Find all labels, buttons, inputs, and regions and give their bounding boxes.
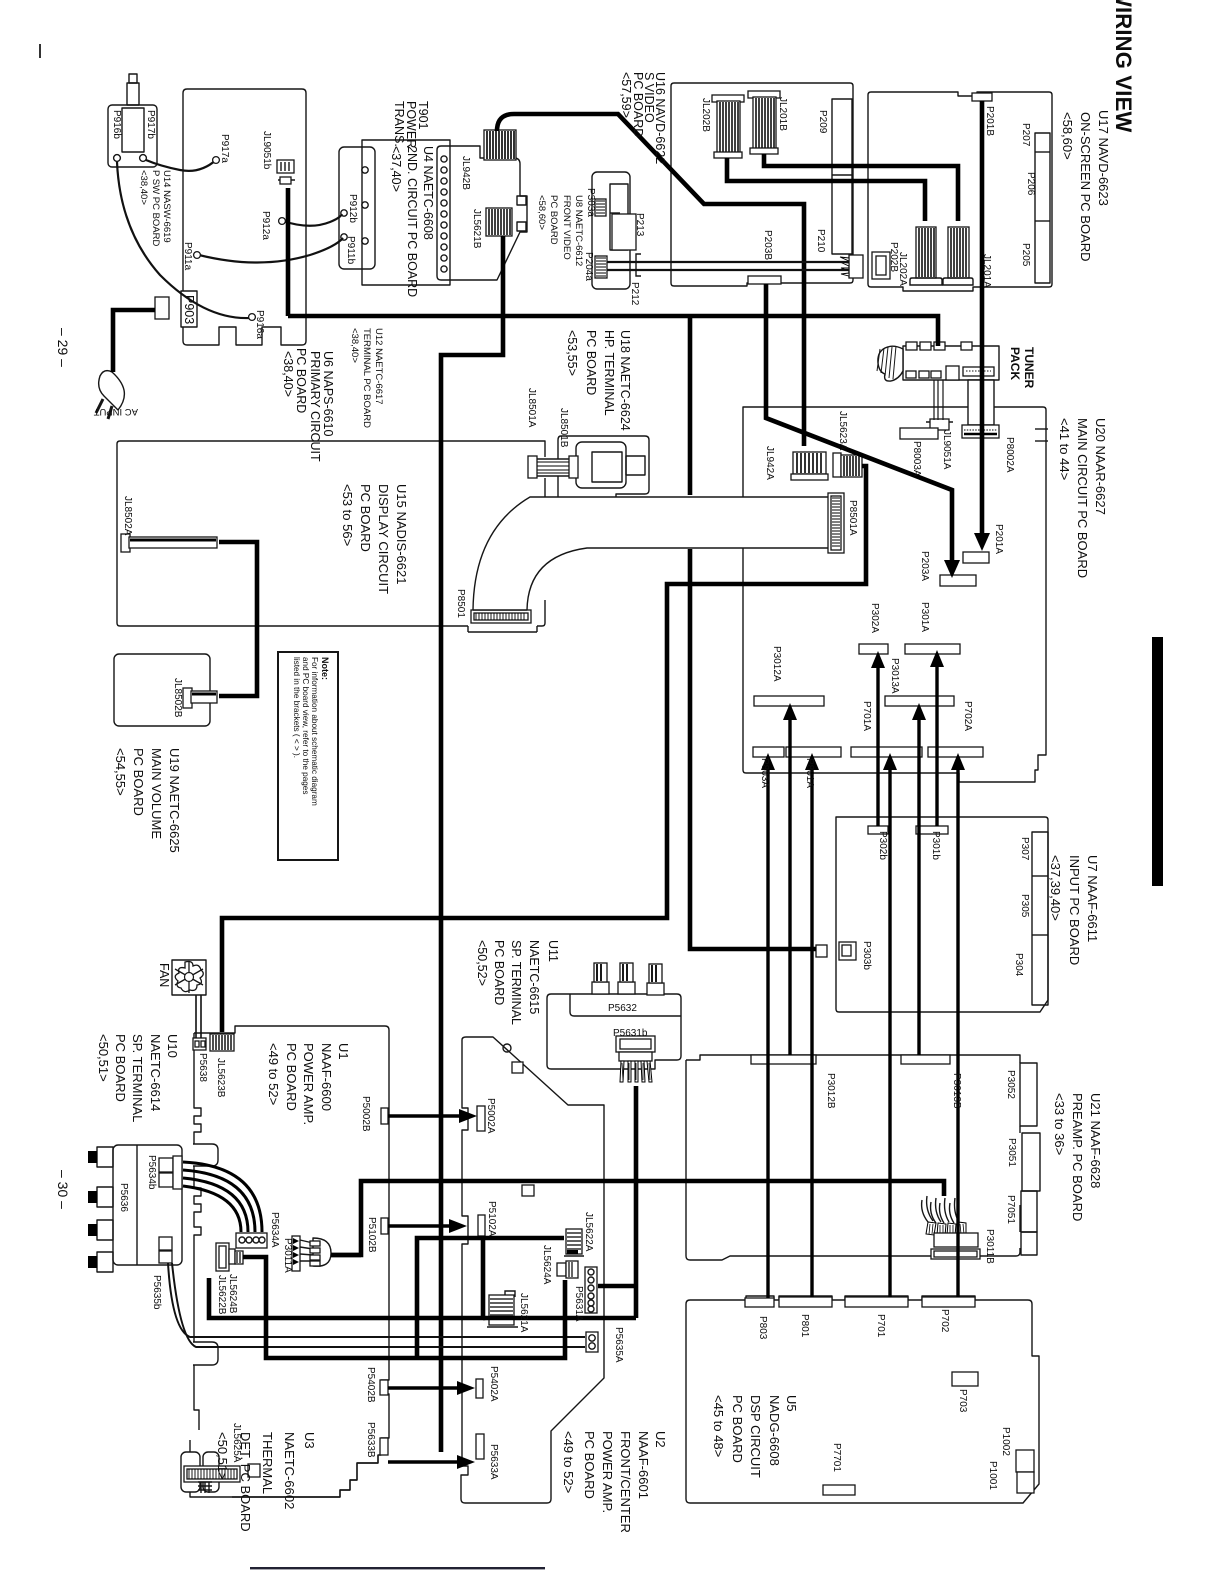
connector JL202B striped on U16	[712, 95, 744, 158]
svg-text:PC BOARD: PC BOARD	[294, 348, 308, 413]
wire pair P204a to 5-pin connector	[607, 262, 849, 270]
svg-text:FRONT VIDEO: FRONT VIDEO	[561, 195, 572, 260]
connector JL5621B striped on U4	[486, 208, 512, 236]
wire P203B down to diagonal to P203A arrow	[766, 284, 952, 566]
svg-text:JL5623A: JL5623A	[837, 411, 848, 451]
svg-text:P305: P305	[1019, 894, 1030, 918]
board U16 NAVD-6622 s-video	[671, 83, 853, 286]
connector P703 on U5	[952, 1372, 978, 1386]
svg-text:P5638: P5638	[197, 1053, 208, 1082]
svg-text:P7701: P7701	[831, 1443, 842, 1472]
svg-text:PC BOARD: PC BOARD	[730, 1395, 745, 1463]
connector P8501 striped on U15	[471, 610, 531, 623]
svg-text:<58,60>: <58,60>	[1060, 112, 1075, 160]
svg-text:P917a: P917a	[219, 134, 230, 163]
connector P701A on U20	[851, 747, 922, 757]
svg-text:MAIN CIRCUIT PC BOARD: MAIN CIRCUIT PC BOARD	[1075, 418, 1090, 578]
tuner pack	[877, 342, 999, 381]
connector P303b on U7	[816, 942, 856, 960]
RCA jack row on U10	[88, 1147, 113, 1272]
connector P303a hatched on U8	[595, 199, 606, 216]
svg-text:U1: U1	[336, 1043, 351, 1060]
svg-text:P5631b: P5631b	[613, 1028, 648, 1039]
label block U2	[561, 1431, 668, 1533]
svg-text:P5002A: P5002A	[485, 1098, 496, 1134]
svg-text:U14 NASW-6619: U14 NASW-6619	[161, 170, 172, 243]
connector P702A on U20	[928, 747, 983, 757]
svg-text:P912b: P912b	[347, 194, 358, 223]
connector JL8502A on U15	[121, 534, 217, 552]
rca plugs on U11 top	[592, 963, 664, 995]
wire P5635b to P5635A thin pair	[168, 1263, 585, 1347]
svg-text:P201B: P201B	[984, 106, 995, 136]
svg-text:PC BOARD: PC BOARD	[548, 195, 559, 245]
small square on U2 upper	[512, 1062, 523, 1073]
svg-text:U12 NAETC-6617: U12 NAETC-6617	[373, 328, 384, 405]
label block note	[292, 657, 330, 806]
svg-text:U2: U2	[653, 1431, 668, 1448]
svg-text:<58,60>: <58,60>	[536, 195, 547, 230]
svg-text:U11: U11	[546, 940, 560, 962]
label block U14	[138, 170, 172, 247]
connector P203B on U16	[748, 276, 781, 284]
label block U10	[96, 1034, 180, 1122]
svg-text:P303a: P303a	[585, 188, 596, 217]
svg-text:U6 NAPS-6610: U6 NAPS-6610	[321, 351, 335, 437]
svg-text:U21 NAAF-6628: U21 NAAF-6628	[1088, 1093, 1103, 1188]
connector P201B on U17 top edge	[972, 93, 992, 101]
svg-text:P304: P304	[1013, 953, 1024, 977]
board U12 NAETC-6617 terminal	[339, 147, 375, 269]
svg-text:<37,39,40>: <37,39,40>	[1048, 855, 1063, 921]
svg-text:JL201A: JL201A	[981, 254, 992, 288]
wire JL5623A to JL5623B long path	[222, 466, 866, 1032]
svg-text:JL5622B: JL5622B	[216, 1275, 227, 1315]
svg-text:NAETC-6602: NAETC-6602	[282, 1432, 297, 1509]
board U7 NAAF-6611 input	[836, 817, 1048, 1012]
svg-text:POWER AMP.: POWER AMP.	[600, 1431, 615, 1513]
svg-text:INPUT PC BOARD: INPUT PC BOARD	[1067, 855, 1082, 965]
svg-text:For information about schemati: For information about schematic diagram	[310, 657, 319, 806]
label block U12	[349, 328, 384, 428]
connector P1001 on U5 edge	[1017, 1472, 1034, 1493]
svg-text:P5002B: P5002B	[360, 1096, 371, 1132]
connector P204a hatched on U8	[595, 256, 607, 278]
svg-text:JL5624B: JL5624B	[227, 1274, 238, 1314]
power switch P916b/P917b block U14	[108, 74, 157, 167]
svg-text:U4 NAETC-6608: U4 NAETC-6608	[421, 146, 435, 240]
wire JL8502A to JL8502B	[219, 542, 257, 696]
svg-text:U10: U10	[165, 1034, 180, 1058]
wire P3011A stub	[331, 1253, 361, 1258]
wire P916b to P916a long curve	[117, 162, 250, 318]
svg-text:<33 to 36>: <33 to 36>	[1052, 1093, 1067, 1155]
svg-text:P302A: P302A	[869, 603, 880, 633]
svg-text:P307: P307	[1019, 837, 1030, 861]
svg-text:P1001: P1001	[987, 1461, 998, 1490]
connector P5102B on U1 right edge	[381, 1218, 388, 1234]
label block U20	[1057, 418, 1108, 578]
wire JL942B to JL942A : over top, diagonal, down	[497, 114, 804, 446]
svg-text:– 29 –: – 29 –	[55, 328, 71, 367]
board U10 NAETC-6614 sp terminal	[113, 1145, 182, 1265]
svg-text:PC BOARD: PC BOARD	[582, 1431, 597, 1499]
svg-text:P5635A: P5635A	[613, 1327, 624, 1363]
svg-text:P916b: P916b	[111, 110, 122, 139]
wire P5002B to P5002A arrow	[388, 1114, 463, 1117]
svg-text:P5634A: P5634A	[269, 1212, 280, 1248]
board U17 NAVD-6623 on-screen	[868, 92, 1052, 291]
connector JL5624B on U10	[229, 1249, 243, 1264]
svg-text:JL5622A: JL5622A	[583, 1212, 594, 1252]
label block U21	[1052, 1093, 1103, 1221]
connector P801A on U20	[786, 747, 841, 757]
board U15 NADIS-6621 display circuit	[117, 441, 545, 632]
connector P3013A on U20	[885, 696, 954, 706]
svg-text:JL8501A: JL8501A	[526, 388, 537, 428]
svg-text:P303b: P303b	[861, 941, 872, 970]
svg-text:DET. PC BOARD: DET. PC BOARD	[238, 1432, 253, 1532]
svg-text:JL5623B: JL5623B	[215, 1058, 226, 1098]
connector P7701 on U5	[823, 1485, 855, 1495]
svg-text:<41 to 44>: <41 to 44>	[1057, 418, 1072, 480]
connector P5635b on U10	[159, 1237, 172, 1263]
connector JL5621A striped on U2	[487, 1291, 518, 1327]
board U5 NADG-6608 dsp circuit	[686, 1296, 1039, 1503]
svg-text:FRONT/CENTER: FRONT/CENTER	[618, 1431, 633, 1533]
connector P5002B on U1 right edge	[381, 1108, 388, 1124]
svg-text:P5402B: P5402B	[365, 1367, 376, 1403]
svg-text:JL8502A: JL8502A	[122, 496, 133, 536]
wire P803A to P803	[766, 766, 769, 1298]
svg-text:P5102B: P5102B	[366, 1217, 377, 1253]
connector P803 on U5	[745, 1298, 774, 1307]
svg-text:<38,40>: <38,40>	[138, 170, 149, 205]
connector JL5625A striped on U3	[184, 1464, 260, 1493]
connector JL942B striped on U4	[484, 130, 516, 160]
svg-text:<54,55>: <54,55>	[113, 748, 128, 796]
svg-text:ON-SCREEN PC BOARD: ON-SCREEN PC BOARD	[1078, 112, 1093, 262]
wire JL9051b down to main bus	[286, 188, 291, 316]
wire JL5621B down, left, long down to U1 area	[441, 236, 503, 1452]
svg-text:TERMINAL PC BOARD: TERMINAL PC BOARD	[361, 328, 372, 428]
connector P5631A 6-hole column on U2	[585, 1267, 597, 1313]
label block TUNER PACK	[1008, 347, 1036, 389]
connector P5634b on U10	[159, 1156, 182, 1189]
connector P702 on U5	[922, 1297, 975, 1307]
svg-text:P912a: P912a	[260, 211, 271, 240]
svg-text:P8501A: P8501A	[847, 500, 858, 536]
svg-text:<50,52>: <50,52>	[475, 940, 489, 986]
label block U5	[711, 1395, 799, 1478]
svg-text:WIRING VIEW: WIRING VIEW	[1111, 0, 1136, 132]
svg-text:P3011A: P3011A	[282, 1238, 293, 1273]
svg-text:TUNER: TUNER	[1022, 347, 1036, 389]
svg-text:Note:: Note:	[320, 657, 330, 680]
svg-text:U7 NAAF-6611: U7 NAAF-6611	[1085, 855, 1100, 942]
wire P702A to P702 (passes P3011B)	[956, 766, 959, 1297]
svg-text:P8002A: P8002A	[1004, 437, 1015, 473]
arrowhead into P201A	[974, 533, 990, 551]
wire JL201B to JL201A	[764, 154, 958, 221]
svg-text:P203B: P203B	[762, 230, 773, 260]
connector P202B on U17	[872, 252, 890, 279]
svg-text:P703: P703	[957, 1389, 968, 1413]
connector P8003A on U20	[900, 428, 938, 439]
connector JL942A striped on U20	[791, 452, 828, 480]
wire P917a to P917b curve	[146, 160, 216, 171]
connector P3013B on U21	[901, 1055, 950, 1064]
wire P701A to P701	[888, 766, 891, 1297]
band JL8501 ribbon U15 to U18 jack	[528, 456, 578, 478]
connector JL201A striped on U17	[943, 227, 973, 285]
svg-text:P201A: P201A	[993, 524, 1004, 554]
svg-text:P209: P209	[817, 110, 828, 134]
connector P5402A on U2	[476, 1379, 483, 1398]
board U6 NAPS-6610 primary circuit	[183, 89, 306, 345]
wire P3012A to P3012B	[788, 716, 791, 1055]
svg-text:P SW PC BOARD: P SW PC BOARD	[150, 170, 161, 247]
connector P302b on U7 top edge	[868, 826, 888, 834]
svg-text:P911b: P911b	[345, 236, 356, 265]
connector P301b on U7 top edge	[916, 826, 948, 834]
connector P801 on U5	[779, 1297, 832, 1307]
connector P212 bracket	[636, 254, 641, 276]
svg-text:P5102A: P5102A	[486, 1201, 497, 1237]
connector P5002A on U2	[477, 1106, 485, 1131]
svg-text:U20 NAAR-6627: U20 NAAR-6627	[1093, 418, 1108, 515]
svg-text:P5632: P5632	[608, 1003, 637, 1014]
connector JL201B striped on U16	[748, 91, 780, 154]
connector P302A on U20	[859, 644, 888, 654]
connector P203A on U20	[940, 575, 976, 586]
svg-text:U15 NADIS-6621: U15 NADIS-6621	[394, 484, 409, 584]
wire P5631b to P5631A area	[483, 1086, 636, 1318]
svg-text:P5634b: P5634b	[146, 1155, 157, 1190]
svg-text:P701A: P701A	[861, 701, 872, 731]
svg-text:U3: U3	[302, 1432, 317, 1449]
svg-text:PC BOARD: PC BOARD	[358, 484, 373, 552]
svg-text:PREAMP. PC BOARD: PREAMP. PC BOARD	[1070, 1093, 1085, 1221]
wire P5102B to P5102A arrow	[388, 1224, 453, 1227]
svg-text:PC BOARD: PC BOARD	[492, 940, 506, 1005]
wire fan to P5638 double line	[196, 995, 201, 1038]
svg-text:<38,40>: <38,40>	[281, 351, 295, 397]
board U2 NAAF-6601 front/center power amp	[461, 1037, 604, 1503]
wire P3013A to P3013B	[917, 716, 920, 1055]
connector P803A on U20	[753, 747, 784, 757]
svg-text:JL942B: JL942B	[460, 156, 471, 190]
wire P201B long down to P201A arrow	[980, 101, 985, 538]
svg-text:P301b: P301b	[930, 831, 941, 860]
svg-text:2ND. CIRCUIT PC BOARD: 2ND. CIRCUIT PC BOARD	[405, 146, 419, 297]
svg-text:P3013B: P3013B	[951, 1073, 962, 1109]
svg-text:NAETC-6614: NAETC-6614	[148, 1034, 163, 1111]
page tick mark	[39, 44, 41, 58]
label block U15	[340, 484, 409, 594]
wire P5634b to P5634A four arcs	[183, 1162, 262, 1232]
svg-text:U8 NAETC-6612: U8 NAETC-6612	[573, 195, 584, 266]
svg-text:P803A: P803A	[759, 758, 770, 788]
board U3 NAETC-6602 thermal det	[181, 1440, 378, 1497]
connector P5633B on U1 right edge	[380, 1438, 388, 1455]
svg-text:P206: P206	[1025, 172, 1036, 196]
note box	[278, 652, 338, 860]
svg-text:<49 to 52>: <49 to 52>	[266, 1043, 281, 1105]
band tuner P8002A wide ribbon	[962, 380, 999, 438]
svg-text:P7051: P7051	[1005, 1195, 1016, 1224]
svg-text:DSP CIRCUIT: DSP CIRCUIT	[748, 1395, 763, 1478]
board U1 NAAF-6600 power amp	[193, 1026, 389, 1497]
fan symbol	[172, 960, 206, 995]
svg-text:P8003A: P8003A	[911, 441, 922, 477]
wire main bus y=316 from U6 to tuner	[288, 316, 938, 346]
wire P302A arrow from P302b	[876, 666, 879, 826]
label block U19	[113, 748, 182, 853]
svg-text:JL8502B: JL8502B	[172, 678, 183, 718]
connector JL5624A on U2	[557, 1261, 578, 1278]
svg-text:PRIMARY CIRCUIT: PRIMARY CIRCUIT	[308, 351, 322, 462]
svg-text:P8501: P8501	[455, 589, 466, 618]
small circle on U2 diagonal	[503, 1044, 511, 1052]
connector JL9051b on U6	[277, 160, 295, 184]
label block U3	[215, 1432, 317, 1532]
svg-text:P207: P207	[1020, 123, 1031, 147]
svg-text:P5631A: P5631A	[573, 1286, 584, 1322]
connector JL202A striped on U17	[910, 227, 942, 285]
svg-text:P701: P701	[875, 1314, 886, 1338]
svg-text:P3013A: P3013A	[889, 658, 900, 694]
svg-text:JL5621A: JL5621A	[518, 1293, 529, 1333]
svg-text:P5636: P5636	[118, 1183, 129, 1212]
svg-text:<50,51>: <50,51>	[215, 1432, 230, 1480]
svg-text:P702: P702	[939, 1309, 950, 1333]
connector JL5622B on U10	[216, 1243, 229, 1271]
svg-text:<53 to 56>: <53 to 56>	[340, 484, 355, 546]
svg-text:JL202B: JL202B	[700, 98, 711, 132]
connector P5402B on U1 right edge	[380, 1380, 388, 1395]
wire P5633B to P5633A arrow	[388, 1460, 461, 1463]
svg-text:<50,51>: <50,51>	[96, 1034, 111, 1082]
svg-text:PC BOARD: PC BOARD	[131, 748, 146, 816]
bottom rule line	[250, 1567, 545, 1569]
connector P903 box on U6 edge	[181, 291, 197, 327]
board U4 NAETC-6608 2nd circuit	[437, 146, 527, 280]
connector P5633A on U2	[476, 1434, 484, 1459]
label block U8	[536, 195, 584, 266]
wire P912a to P912b curve	[283, 214, 342, 226]
svg-text:JL942A: JL942A	[764, 446, 775, 480]
svg-text:and PC board view, refer to th: and PC board view, refer to the pages	[301, 657, 310, 794]
svg-text:P911a: P911a	[182, 242, 193, 271]
svg-text:listed in the brackets ( < >: listed in the brackets ( < > ).	[292, 657, 301, 758]
wire U6-area vertical x=690 to P303b (interrupted by band)	[688, 316, 693, 495]
connector JL5622A striped on U2	[564, 1229, 584, 1256]
svg-text:<45 to 48>: <45 to 48>	[711, 1395, 726, 1457]
svg-text:P212: P212	[629, 282, 640, 306]
svg-text:THERMAL: THERMAL	[260, 1432, 275, 1494]
svg-text:P702A: P702A	[962, 701, 973, 731]
svg-text:PC BOARD: PC BOARD	[113, 1034, 128, 1102]
wire P911a to P911b curve	[199, 238, 343, 263]
band tuner JL9051A ribbon	[934, 380, 943, 420]
svg-text:P3012A: P3012A	[771, 646, 782, 682]
svg-text:JL201B: JL201B	[777, 97, 788, 131]
svg-text:P803: P803	[757, 1316, 768, 1340]
svg-text:NAAF-6600: NAAF-6600	[319, 1043, 334, 1111]
svg-text:SP. TERMINAL: SP. TERMINAL	[130, 1034, 145, 1122]
svg-text:DISPLAY CIRCUIT: DISPLAY CIRCUIT	[376, 484, 391, 594]
connector P3012A on U20	[754, 696, 824, 706]
connector JL9051A on U20	[926, 419, 953, 430]
svg-text:JL9051A: JL9051A	[941, 430, 952, 470]
svg-text:– 30 –: – 30 –	[55, 1170, 71, 1209]
svg-text:P916a: P916a	[254, 310, 265, 339]
board U19 NAETC-6625 main volume	[114, 654, 210, 726]
transformer T901 body	[362, 140, 450, 285]
svg-text:P203A: P203A	[919, 551, 930, 581]
label block U7	[1048, 855, 1100, 965]
svg-text:P3051: P3051	[1006, 1138, 1017, 1167]
svg-text:PC BOARD: PC BOARD	[584, 330, 598, 395]
connector JL5623A striped on U20	[833, 453, 862, 477]
svg-text:AC INPUT: AC INPUT	[93, 406, 138, 417]
svg-text:P3011B: P3011B	[984, 1229, 995, 1264]
connector P701 on U5	[845, 1297, 908, 1307]
svg-text:P5633B: P5633B	[365, 1422, 376, 1458]
connector P1002 on U5 edge	[1016, 1450, 1034, 1472]
svg-text:P5633A: P5633A	[488, 1444, 499, 1480]
connector P5634A 4-pin	[236, 1233, 267, 1248]
svg-text:P5635b: P5635b	[151, 1275, 162, 1310]
connector P301A on U20	[905, 644, 960, 654]
svg-text:PC BOARD: PC BOARD	[284, 1043, 299, 1111]
svg-text:JL9051b: JL9051b	[261, 131, 272, 170]
svg-text:P210: P210	[815, 229, 826, 253]
label block U17	[1060, 110, 1111, 262]
svg-text:P301A: P301A	[919, 602, 930, 632]
svg-text:U19 NAETC-6625: U19 NAETC-6625	[167, 748, 182, 853]
svg-text:JL202A: JL202A	[897, 252, 908, 286]
svg-text:TRANS.: TRANS.	[392, 101, 406, 147]
svg-text:<37,40>: <37,40>	[389, 146, 403, 192]
small square on U2 mid	[522, 1185, 534, 1196]
wire bus to JL5622A with corner at x417	[417, 1238, 564, 1358]
board U18 NAETC-6624 hp terminal	[558, 436, 649, 533]
svg-text:MAIN VOLUME: MAIN VOLUME	[149, 748, 164, 839]
svg-text:<53,55>: <53,55>	[565, 330, 579, 376]
connector plug on transformer primary (AC lead)	[155, 297, 169, 319]
svg-text:NAAF-6601: NAAF-6601	[636, 1431, 651, 1499]
connector P5102A on U2	[476, 1215, 488, 1238]
board U20 NAAR-6627 main circuit	[743, 407, 1048, 782]
svg-text:P3012B: P3012B	[825, 1073, 836, 1109]
connector 5-pin fan-out at U16 right edge	[840, 255, 863, 278]
svg-text:<49 to 52>: <49 to 52>	[561, 1431, 576, 1493]
svg-text:P213: P213	[634, 213, 645, 237]
connector JL5623B striped on U1	[210, 1034, 234, 1051]
svg-text:P801: P801	[799, 1314, 810, 1338]
svg-text:<38,40>: <38,40>	[349, 328, 360, 363]
svg-text:JL5621B: JL5621B	[471, 209, 482, 249]
svg-text:P801A: P801A	[804, 758, 815, 788]
band P8501 flat cable from U15 to U20 P8501A	[473, 497, 830, 610]
wire P301A arrow from P301b	[935, 665, 938, 826]
svg-text:P302b: P302b	[877, 831, 888, 860]
connector P3012B on U21	[751, 1055, 816, 1064]
svg-text:P205: P205	[1020, 243, 1031, 267]
connector JL8502B on U19	[183, 688, 217, 708]
